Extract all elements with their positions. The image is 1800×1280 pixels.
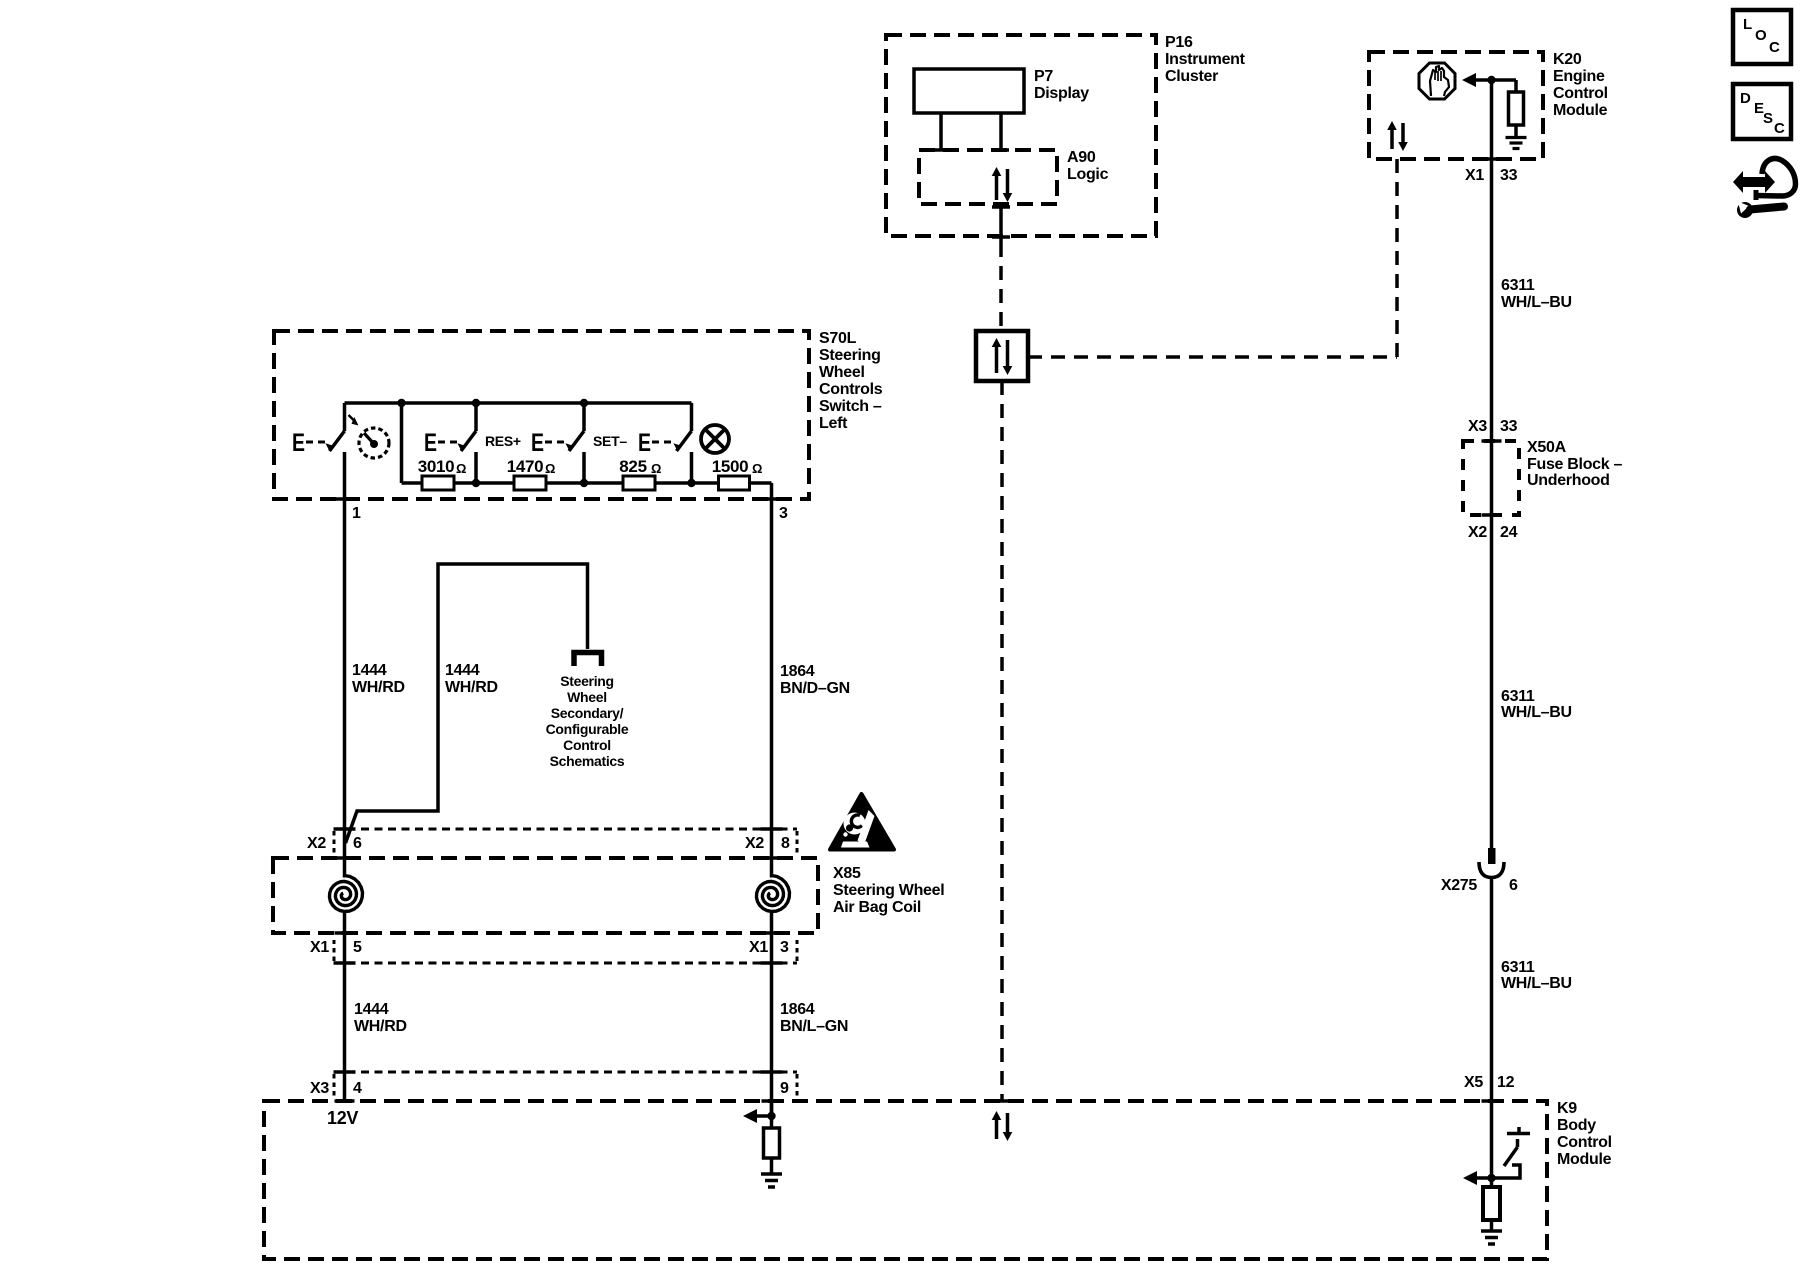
- svg-text:E: E: [531, 429, 544, 457]
- svg-text:Control: Control: [563, 737, 611, 753]
- svg-text:WH/L–BU: WH/L–BU: [1501, 975, 1572, 992]
- svg-text:A90: A90: [1067, 149, 1096, 166]
- svg-text:Wheel: Wheel: [819, 364, 865, 381]
- svg-text:Control: Control: [1553, 85, 1608, 102]
- svg-text:X3: X3: [1468, 418, 1487, 435]
- svg-text:Module: Module: [1553, 102, 1608, 119]
- svg-text:P7: P7: [1034, 68, 1053, 85]
- svg-text:1444: 1444: [352, 662, 387, 679]
- svg-text:X1: X1: [749, 939, 768, 956]
- svg-text:Wheel: Wheel: [567, 689, 607, 705]
- svg-text:Ω: Ω: [545, 461, 555, 476]
- svg-text:X275: X275: [1441, 877, 1478, 894]
- svg-text:Body: Body: [1557, 1117, 1596, 1134]
- svg-text:WH/L–BU: WH/L–BU: [1501, 294, 1572, 311]
- svg-text:WH/RD: WH/RD: [445, 679, 498, 696]
- svg-text:33: 33: [1500, 167, 1518, 184]
- svg-text:1: 1: [352, 505, 361, 522]
- svg-text:E: E: [638, 429, 651, 457]
- svg-text:8: 8: [781, 835, 790, 852]
- svg-text:Engine: Engine: [1553, 68, 1605, 85]
- svg-text:E: E: [424, 429, 437, 457]
- svg-text:5: 5: [353, 939, 362, 956]
- svg-text:Schematics: Schematics: [550, 753, 625, 769]
- svg-text:X3: X3: [310, 1080, 329, 1097]
- svg-text:BN/L–GN: BN/L–GN: [780, 1018, 848, 1035]
- svg-text:Control: Control: [1557, 1134, 1612, 1151]
- svg-text:WH/RD: WH/RD: [352, 679, 405, 696]
- svg-text:Secondary/: Secondary/: [551, 705, 624, 721]
- svg-text:L: L: [1743, 16, 1752, 33]
- svg-text:WH/L–BU: WH/L–BU: [1501, 704, 1572, 721]
- svg-text:3: 3: [780, 939, 789, 956]
- svg-text:24: 24: [1500, 524, 1518, 541]
- svg-text:12: 12: [1497, 1074, 1515, 1091]
- svg-text:1444: 1444: [445, 662, 480, 679]
- svg-text:Air Bag Coil: Air Bag Coil: [833, 899, 921, 916]
- svg-text:X85: X85: [833, 865, 861, 882]
- svg-text:Ω: Ω: [456, 461, 466, 476]
- svg-text:Fuse Block –: Fuse Block –: [1527, 456, 1623, 473]
- svg-text:3010: 3010: [418, 457, 455, 476]
- svg-text:825: 825: [619, 457, 646, 476]
- svg-text:P16: P16: [1165, 34, 1193, 51]
- svg-text:6: 6: [1509, 877, 1518, 894]
- svg-text:S: S: [1763, 110, 1773, 127]
- svg-text:Steering: Steering: [819, 347, 881, 364]
- svg-text:Cluster: Cluster: [1165, 68, 1218, 85]
- svg-text:6311: 6311: [1501, 277, 1535, 294]
- svg-text:X50A: X50A: [1527, 439, 1567, 456]
- svg-text:K9: K9: [1557, 1100, 1577, 1117]
- svg-text:C: C: [1769, 39, 1780, 56]
- svg-text:RES+: RES+: [485, 433, 521, 449]
- svg-text:Display: Display: [1034, 85, 1089, 102]
- svg-text:Left: Left: [819, 415, 848, 432]
- svg-text:Ω: Ω: [651, 461, 661, 476]
- svg-text:6: 6: [353, 835, 362, 852]
- svg-text:4: 4: [353, 1080, 362, 1097]
- svg-text:Switch –: Switch –: [819, 398, 882, 415]
- svg-text:C: C: [1774, 120, 1785, 137]
- svg-text:3: 3: [779, 505, 788, 522]
- svg-text:1470: 1470: [507, 457, 544, 476]
- svg-text:Logic: Logic: [1067, 166, 1109, 183]
- svg-text:S70L: S70L: [819, 330, 857, 347]
- svg-text:X2: X2: [745, 835, 764, 852]
- svg-text:D: D: [1740, 90, 1751, 107]
- svg-text:Underhood: Underhood: [1527, 472, 1610, 489]
- svg-text:BN/D–GN: BN/D–GN: [780, 680, 850, 697]
- svg-text:Instrument: Instrument: [1165, 51, 1246, 68]
- svg-text:33: 33: [1500, 418, 1518, 435]
- svg-text:12V: 12V: [327, 1108, 358, 1128]
- svg-text:1864: 1864: [780, 663, 815, 680]
- svg-text:Steering: Steering: [560, 673, 614, 689]
- svg-text:X2: X2: [307, 835, 326, 852]
- svg-text:SET–: SET–: [593, 433, 627, 449]
- svg-text:E: E: [292, 429, 305, 457]
- svg-text:1500: 1500: [712, 457, 749, 476]
- svg-text:O: O: [1755, 27, 1767, 44]
- svg-text:X1: X1: [310, 939, 329, 956]
- svg-text:Controls: Controls: [819, 381, 883, 398]
- svg-text:WH/RD: WH/RD: [354, 1018, 407, 1035]
- svg-text:K20: K20: [1553, 51, 1582, 68]
- svg-text:6311: 6311: [1501, 688, 1535, 705]
- svg-text:X1: X1: [1465, 167, 1484, 184]
- svg-text:1864: 1864: [780, 1001, 815, 1018]
- svg-text:X5: X5: [1464, 1074, 1483, 1091]
- svg-text:9: 9: [780, 1080, 789, 1097]
- svg-text:Module: Module: [1557, 1151, 1612, 1168]
- svg-text:Steering Wheel: Steering Wheel: [833, 882, 944, 899]
- svg-text:6311: 6311: [1501, 959, 1535, 976]
- svg-text:1444: 1444: [354, 1001, 389, 1018]
- svg-text:Configurable: Configurable: [546, 721, 629, 737]
- svg-text:X2: X2: [1468, 524, 1487, 541]
- svg-text:Ω: Ω: [752, 461, 762, 476]
